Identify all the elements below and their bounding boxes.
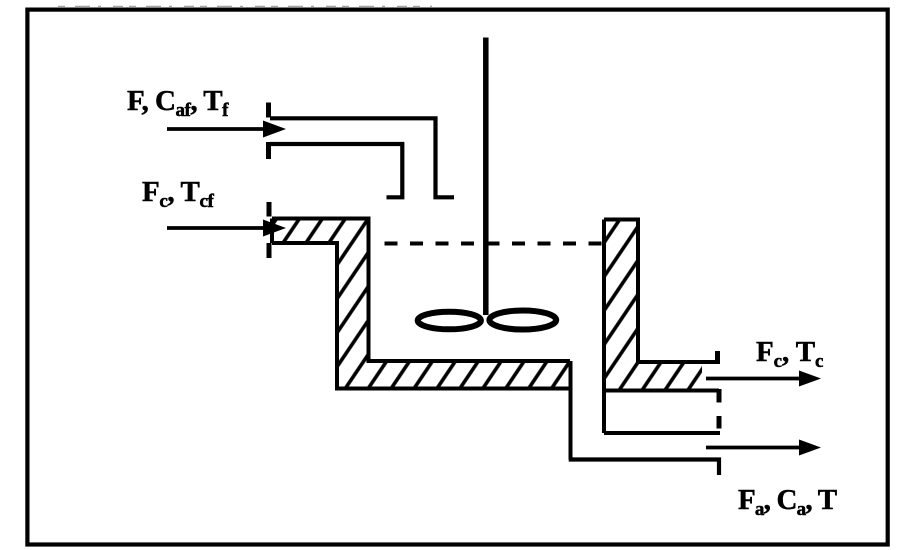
svg-text:Fa, Ca, T: Fa, Ca, T (738, 484, 837, 520)
jacket outlet corner tick dash (717, 416, 722, 429)
product pipe left wall (569, 361, 573, 460)
coolant outlet pipe upper flange tick (715, 351, 720, 364)
feed inlet wall tick lower (266, 142, 271, 159)
stirrer blade right (489, 311, 556, 330)
product pipe bottom wall (569, 460, 719, 476)
feed pipe inner wall (270, 144, 402, 197)
coolant inlet wall tick upper (267, 202, 272, 217)
feed pipe outer wall (270, 118, 454, 197)
liquid level dashed line (385, 242, 604, 246)
jacket bottom edge line (604, 389, 719, 393)
coolant inlet arrow (167, 220, 286, 237)
stirrer blade left (418, 312, 481, 330)
feed inlet wall tick upper (266, 103, 271, 118)
product channel top wall (604, 431, 720, 435)
product outlet arrow (706, 440, 821, 456)
coolant outlet arrow (706, 371, 821, 387)
svg-text:Fc, Tc: Fc, Tc (756, 336, 823, 372)
stirrer shaft (483, 38, 489, 316)
coolant inlet wall tick lower (267, 243, 272, 258)
feed arrow (167, 121, 286, 138)
jacket outlet corner tick solid (717, 389, 722, 403)
left jacket wall (hatched) (272, 219, 570, 389)
right jacket wall (hatched) (604, 220, 716, 434)
